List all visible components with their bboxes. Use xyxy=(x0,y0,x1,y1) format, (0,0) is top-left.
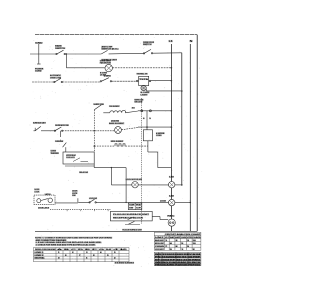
svg-text:1: 1 xyxy=(165,240,167,242)
svg-text:DOOR LATCH: DOOR LATCH xyxy=(38,207,50,210)
svg-text:LM: LM xyxy=(169,176,174,178)
svg-text:0: 0 xyxy=(170,249,172,251)
svg-text:CORD: CORD xyxy=(35,71,42,73)
svg-text:24: 24 xyxy=(132,106,135,109)
svg-text:OVEN SW: OVEN SW xyxy=(55,141,63,143)
svg-text:LATCH: LATCH xyxy=(45,193,51,196)
svg-text:FRIGIDAIRE RANGE FEF365: FRIGIDAIRE RANGE FEF365 xyxy=(155,263,201,266)
svg-text:CLEAN: CLEAN xyxy=(155,245,165,248)
svg-text:9: 9 xyxy=(149,118,151,120)
svg-text:16: 16 xyxy=(193,243,196,245)
svg-text:2600W: 2600W xyxy=(111,121,119,123)
svg-text:SW: SW xyxy=(72,195,76,197)
svg-text:5: 5 xyxy=(114,252,116,254)
svg-text:BAKE UNIT: BAKE UNIT xyxy=(155,239,165,242)
svg-text:LOCK MOTOR SW: LOCK MOTOR SW xyxy=(126,179,142,181)
svg-text:1: 1 xyxy=(181,249,183,251)
svg-text:OHMS: OHMS xyxy=(193,237,202,239)
svg-text:LOCK SW: LOCK SW xyxy=(89,198,97,200)
svg-text:LOCK MOT: LOCK MOT xyxy=(155,249,165,251)
svg-text:4: 4 xyxy=(170,242,172,245)
svg-text:EF 3004 KF 441 21 B RNG: EF 3004 KF 441 21 B RNG xyxy=(155,259,201,262)
svg-text:7: 7 xyxy=(165,246,167,248)
svg-text:BROIL UNIT: BROIL UNIT xyxy=(155,243,165,245)
svg-text:OHM: OHM xyxy=(181,237,186,239)
svg-text:PLUG-IN SURFACE UNIT: PLUG-IN SURFACE UNIT xyxy=(113,213,150,216)
svg-text:THERMO: THERMO xyxy=(51,153,60,155)
svg-text:9: 9 xyxy=(187,246,189,248)
svg-text:PN 316265400 S1 04 FEF: PN 316265400 S1 04 FEF xyxy=(155,256,201,259)
svg-text:COIL ELEMENT: COIL ELEMENT xyxy=(109,106,120,108)
svg-text:WD 3136012683 REV A 04: WD 3136012683 REV A 04 xyxy=(155,253,202,256)
svg-text:3. CHECK FOR WIRE SIZE AND TYP: 3. CHECK FOR WIRE SIZE AND TYPE AS PER L… xyxy=(36,244,96,247)
svg-text:SW: SW xyxy=(129,207,133,209)
svg-text:3136012683: 3136012683 xyxy=(115,262,136,264)
svg-text:SWITCH: SWITCH xyxy=(55,48,66,50)
svg-text:3: 3 xyxy=(187,240,189,242)
svg-text:LM: LM xyxy=(169,196,174,198)
svg-text:CIRCUIT ANALYSIS CHART: CIRCUIT ANALYSIS CHART xyxy=(165,233,202,236)
svg-text:PLUG-IN SURFACE UNIT: PLUG-IN SURFACE UNIT xyxy=(122,228,142,231)
svg-text:LOCK: LOCK xyxy=(160,201,167,203)
svg-text:5: 5 xyxy=(181,243,183,245)
svg-text:K: K xyxy=(120,249,130,251)
svg-text:BROIL ELEMENT: BROIL ELEMENT xyxy=(111,141,124,143)
svg-text:OVEN LT SW: OVEN LT SW xyxy=(50,77,61,79)
svg-text:DOOR LOCK: DOOR LOCK xyxy=(66,157,75,159)
svg-text:RECEPTACLE BLOCK: RECEPTACLE BLOCK xyxy=(113,216,144,219)
svg-text:SURFACE UNIT: SURFACE UNIT xyxy=(33,122,46,125)
svg-text:4: 4 xyxy=(100,251,103,254)
svg-text:3: 3 xyxy=(86,252,88,254)
svg-text:WIRING CODE DIAGRAM: WIRING CODE DIAGRAM xyxy=(35,248,56,251)
svg-text:1: 1 xyxy=(86,258,88,260)
svg-text:SURFACE SW: SURFACE SW xyxy=(55,124,69,127)
svg-text:8: 8 xyxy=(176,246,178,248)
svg-text:LOCK: LOCK xyxy=(34,191,40,193)
svg-text:8: 8 xyxy=(93,255,95,257)
svg-text:SWITCH (N.O.): SWITCH (N.O.) xyxy=(101,49,118,51)
svg-text:6: 6 xyxy=(143,118,145,120)
svg-text:7: 7 xyxy=(79,255,81,257)
svg-text:L1: L1 xyxy=(169,40,174,43)
svg-text:SW LIGHT: SW LIGHT xyxy=(134,102,143,104)
svg-text:NEUTRAL: NEUTRAL xyxy=(35,257,46,260)
svg-text:LIGHT: LIGHT xyxy=(141,95,149,97)
svg-text:1: 1 xyxy=(58,252,60,254)
svg-text:RELAY SW: RELAY SW xyxy=(79,171,88,174)
svg-text:0: 0 xyxy=(58,258,60,260)
svg-text:SWITCH: SWITCH xyxy=(143,44,152,46)
svg-text:9: 9 xyxy=(107,255,109,257)
svg-text:N: N xyxy=(190,40,193,43)
svg-text:2: 2 xyxy=(114,258,116,260)
svg-text:FAN MOTOR: FAN MOTOR xyxy=(100,62,112,65)
svg-text:2: 2 xyxy=(176,240,178,242)
svg-text:6: 6 xyxy=(65,255,67,257)
svg-text:2: 2 xyxy=(72,252,74,254)
svg-text:THERMAL SW: THERMAL SW xyxy=(137,72,148,75)
svg-text:2: 2 xyxy=(193,249,195,251)
svg-text:SURF SW: SURF SW xyxy=(93,104,104,106)
svg-text:G: G xyxy=(99,249,106,251)
svg-text:REC: REC xyxy=(167,216,175,218)
svg-text:LT SW: LT SW xyxy=(100,75,106,77)
svg-text:GND: GND xyxy=(35,43,43,45)
svg-text:J: J xyxy=(113,249,118,251)
svg-text:LINE 2: LINE 2 xyxy=(35,255,44,257)
svg-text:CONN: CONN xyxy=(156,135,162,137)
